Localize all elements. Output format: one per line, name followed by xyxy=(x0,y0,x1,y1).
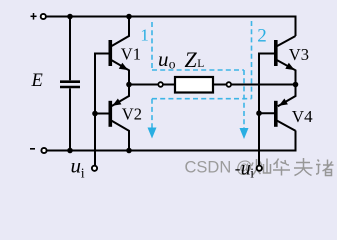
dashed box1 left vertical xyxy=(151,22,153,70)
wire ZL to right circle xyxy=(213,84,226,86)
watermark char 夫 xyxy=(294,158,313,176)
junction base V2 xyxy=(92,111,98,117)
transistor V3 bar xyxy=(274,40,278,66)
transistor V2 emitter arrow xyxy=(112,99,121,106)
transistor V3 collector xyxy=(276,36,295,47)
svg-text:1: 1 xyxy=(140,25,149,44)
node B circle xyxy=(227,82,232,87)
dashed box1 top horizontal xyxy=(152,69,244,71)
svg-text:V2: V2 xyxy=(122,104,142,123)
wire top rail xyxy=(46,17,295,37)
transistor V2 bar xyxy=(109,101,113,127)
svg-text:L: L xyxy=(197,58,204,70)
dashed arrow2 head xyxy=(240,128,249,139)
transistor V1 collector xyxy=(111,18,129,47)
wire bottom rail xyxy=(47,131,296,151)
svg-text:i: i xyxy=(81,167,85,182)
terminal -ui circle xyxy=(257,166,262,171)
transistor V2 base wire xyxy=(95,113,110,115)
transistor V2 emitter xyxy=(111,85,129,107)
capacitor C plates xyxy=(60,82,80,87)
load ZL box xyxy=(175,77,213,93)
dashed box bottom horizontal xyxy=(152,98,252,100)
dashed arrow1 head xyxy=(148,128,157,139)
wire circle to ZL xyxy=(163,84,175,86)
node A junction xyxy=(126,82,132,88)
svg-text:V3: V3 xyxy=(289,45,309,64)
terminal minus xyxy=(30,148,35,150)
wire node B to V3V4 xyxy=(231,84,295,86)
svg-text:Z: Z xyxy=(185,47,198,72)
wire left base column xyxy=(95,54,110,166)
junction V2 collector bottom xyxy=(126,148,132,154)
watermark char 灿 xyxy=(252,159,271,176)
svg-text:u: u xyxy=(241,157,251,179)
transistor V3 emitter xyxy=(276,60,295,84)
transistor V4 emitter xyxy=(278,85,296,107)
transistor V3 emitter arrow xyxy=(285,63,294,70)
terminal minus circle xyxy=(41,148,46,153)
wire right base column xyxy=(259,54,276,166)
wire node A to ZL xyxy=(129,84,158,86)
transistor V1 emitter arrow xyxy=(119,63,128,70)
capacitor C wires xyxy=(69,17,71,151)
transistor V4 bar xyxy=(274,101,278,127)
junction base V4 xyxy=(256,110,262,116)
dashed arrow2 line xyxy=(243,70,245,129)
watermark CSDN xyxy=(185,159,253,177)
watermark char 诸 xyxy=(316,160,334,176)
transistor V4 collector xyxy=(276,120,295,131)
transistor V1 emitter xyxy=(111,60,129,84)
svg-text:2: 2 xyxy=(257,25,267,46)
junction bottom cap xyxy=(67,148,73,154)
svg-text:E: E xyxy=(31,71,43,91)
transistor V1 bar xyxy=(109,40,113,66)
svg-text:o: o xyxy=(169,56,176,71)
terminal plus circle xyxy=(41,14,46,19)
transistor V4 emitter arrow xyxy=(279,99,288,106)
transistor V2 collector xyxy=(111,120,129,150)
svg-text:V4: V4 xyxy=(292,107,313,126)
terminal ui circle xyxy=(92,166,97,171)
svg-text:u: u xyxy=(71,154,82,178)
dashed arrow1 line xyxy=(151,99,153,128)
svg-text:u: u xyxy=(158,47,169,71)
svg-text:i: i xyxy=(250,166,254,181)
watermark char 华 xyxy=(273,159,290,176)
junction top cap xyxy=(67,14,73,20)
dashed box2 right vertical xyxy=(251,21,253,99)
svg-text:V1: V1 xyxy=(121,44,141,63)
node B junction xyxy=(293,82,299,88)
node uo circle xyxy=(158,82,163,87)
terminal plus xyxy=(31,13,37,20)
transistor V4 base wire xyxy=(259,112,276,114)
junction V1 collector top xyxy=(126,14,132,20)
